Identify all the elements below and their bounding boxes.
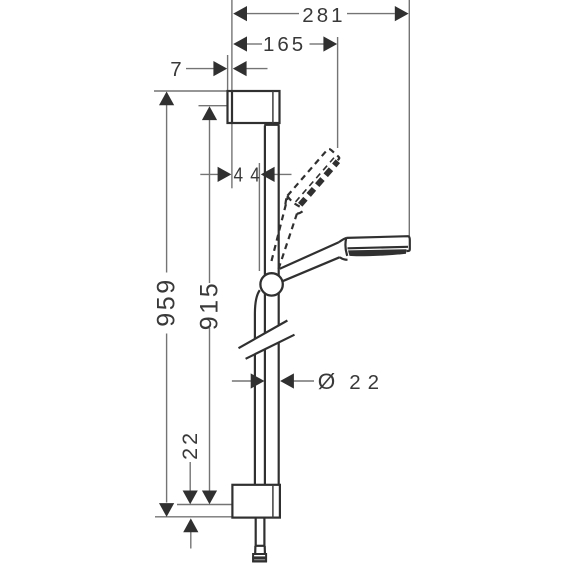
- extension tick 959 bottom: [155, 516, 232, 518]
- hose connector knurled nut: [253, 554, 266, 561]
- svg-text:959: 959: [153, 277, 181, 327]
- head inner line: [348, 247, 409, 249]
- dimension 7 arrows: [213, 61, 227, 76]
- rail upper segment: [264, 126, 266, 334]
- dimension 44 line: [200, 173, 218, 175]
- extension line bracket front x=227.6: [227, 55, 229, 91]
- svg-text:22: 22: [178, 430, 202, 460]
- dashed handle edge right: [279, 212, 298, 269]
- dimension 165 line: [246, 43, 262, 45]
- svg-text:165: 165: [263, 33, 306, 56]
- dimension 281 arrows: [233, 6, 247, 21]
- handle top edge: [280, 242, 339, 269]
- svg-text:22: 22: [349, 371, 386, 394]
- dimension 959 line: [166, 105, 168, 273]
- extension tick 915 bottom: [177, 504, 232, 506]
- dimension dia 22 line: [232, 380, 252, 382]
- svg-text:915: 915: [196, 281, 224, 331]
- extension line wall plane x=232: [231, 0, 233, 91]
- hose upper: [255, 290, 260, 339]
- dimension 959 arrows: [159, 92, 174, 106]
- neck top curve: [339, 238, 347, 242]
- extension tick 959 top: [154, 90, 227, 92]
- break line upper: [239, 321, 288, 349]
- hose end fitting: [255, 545, 265, 547]
- spray face: [348, 249, 407, 256]
- hose below bracket: [255, 518, 257, 546]
- dimension 22 arrows: [183, 491, 198, 505]
- top wall bracket: [228, 91, 280, 123]
- extension line 281 right: [408, 0, 410, 236]
- neck bottom curve: [340, 257, 348, 260]
- rail top cap: [264, 124, 279, 126]
- dimension 165 arrows: [233, 36, 247, 51]
- dashed handle edge left: [272, 196, 289, 261]
- handle bottom edge: [282, 257, 340, 281]
- svg-text:4: 4: [234, 164, 246, 187]
- dimension 915 arrows: [202, 106, 217, 120]
- dimension 44 arrows: [218, 167, 232, 182]
- dimension 22 line: [189, 462, 191, 492]
- svg-text:Ø: Ø: [318, 369, 336, 394]
- dimension 915 line: [209, 120, 211, 284]
- svg-text:4: 4: [250, 164, 262, 187]
- hose lower: [254, 354, 256, 485]
- extension line 165 right: [337, 37, 339, 148]
- dimension 281 line: [247, 13, 299, 15]
- head top edge and right edge: [347, 236, 410, 251]
- svg-text:7: 7: [170, 58, 184, 81]
- break line lower: [246, 335, 295, 359]
- bottom wall bracket: [232, 485, 280, 518]
- dimension 7 line: [186, 68, 215, 70]
- extension tick 915 top: [199, 105, 228, 107]
- head left cap: [345, 238, 347, 256]
- svg-text:281: 281: [302, 4, 345, 27]
- extension line 44 right: [258, 163, 260, 271]
- pivot holder circle: [260, 273, 282, 295]
- dimension dia 22 arrows: [251, 373, 265, 388]
- rail lower segment: [264, 349, 266, 484]
